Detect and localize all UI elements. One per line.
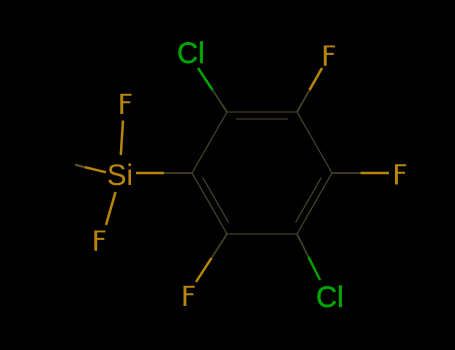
bond C4-F carbon half — [332, 172, 361, 174]
atom label F (right, on C4) — [395, 164, 406, 184]
bond Si-F upper — [121, 121, 123, 156]
bond Si-CH3 methyl carbon half — [75, 165, 85, 167]
bond C2-Cl carbon half — [213, 90, 228, 112]
bond C5-Cl carbon half — [297, 234, 309, 257]
bond C1-Si silicon half — [136, 172, 164, 175]
bond C4-F fluorine half — [361, 172, 390, 175]
bond C6-F fluorine half — [196, 258, 212, 282]
double bond inner line C6=C1 (lower left) — [203, 177, 229, 222]
svg-text:Cl: Cl — [316, 282, 344, 314]
atom label F (lower, on Si) — [94, 231, 105, 251]
svg-text:Cl: Cl — [177, 38, 205, 70]
bond C6-F carbon half — [212, 234, 228, 258]
atom label Si — [107, 160, 133, 192]
atom label Cl (top, on C2) — [177, 38, 205, 70]
atom label F (top right, on C3) — [324, 46, 335, 66]
svg-text:Si: Si — [107, 160, 133, 192]
double bond inner line C4=C5 (lower right) — [296, 177, 322, 222]
bond Si-F lower — [106, 192, 116, 225]
bond C3-F carbon half — [297, 90, 310, 112]
bond C3-F fluorine half — [310, 68, 323, 90]
double bond inner line C2=C3 (top) — [236, 118, 288, 120]
bond C5-Cl chlorine half — [309, 257, 321, 280]
atom label Cl (bottom, on C5) — [316, 282, 344, 314]
atom label F (upper, on Si) — [120, 94, 131, 114]
bond C1-Si carbon half — [164, 172, 192, 174]
atom label F (bottom left, on C6) — [184, 286, 195, 306]
bond C2-Cl chlorine half — [198, 68, 213, 90]
bond Si-CH3 silicon half — [85, 167, 106, 172]
benzene ring C1-C6 — [192, 112, 332, 234]
